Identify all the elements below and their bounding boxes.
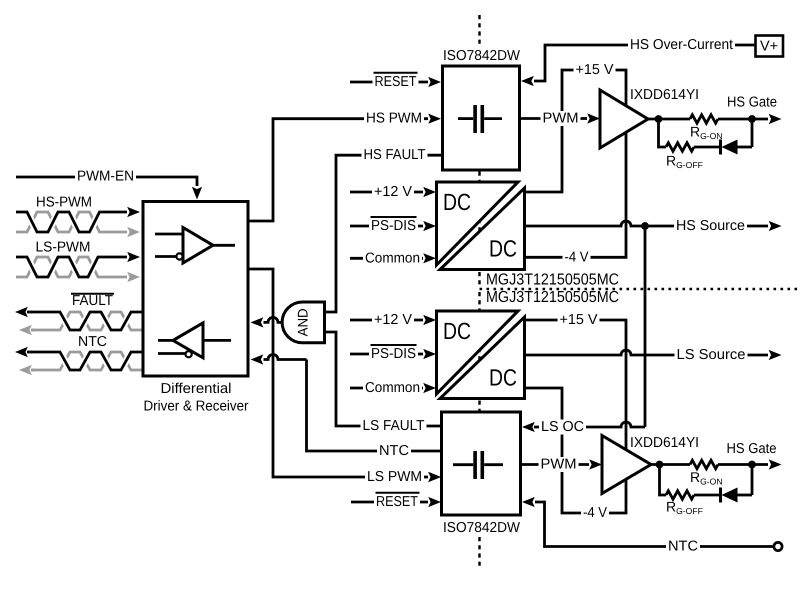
svg-text:LS PWM: LS PWM bbox=[367, 469, 422, 485]
twisted pair LS-PWM (black conductor) bbox=[16, 257, 127, 277]
svg-text:V+: V+ bbox=[760, 39, 778, 55]
open terminal (NTC) bbox=[774, 542, 782, 550]
driver buffer symbol (triangle) inside U1 bbox=[183, 228, 213, 264]
wire PS-DIS into PS2 (overline) bbox=[350, 353, 423, 356]
svg-text:IXDD614YI: IXDD614YI bbox=[630, 435, 699, 451]
svg-text:PWM: PWM bbox=[541, 457, 577, 473]
resistor R_G-OFF (top) bbox=[666, 143, 694, 151]
wire A1 output to gate resistors bbox=[648, 118, 690, 121]
svg-text:Driver & Receiver: Driver & Receiver bbox=[144, 399, 249, 415]
AND gate U2 bbox=[282, 302, 324, 343]
svg-text:+15 V: +15 V bbox=[576, 62, 614, 78]
wire HS Over-Current from V+ down into U3 bbox=[534, 45, 755, 81]
gate driver A2 IXDD614YI (bottom) bbox=[602, 436, 651, 494]
svg-text:RESET: RESET bbox=[376, 494, 418, 510]
svg-text:HS Gate: HS Gate bbox=[727, 95, 777, 111]
isolation boundary dashed vertical (below top DC/DC) bbox=[478, 272, 480, 288]
driver output wire bbox=[213, 244, 235, 247]
wire R_G-ON to HS Gate arrow bbox=[718, 118, 768, 121]
resistor R_G-ON (bottom) bbox=[690, 460, 718, 468]
twisted pair HS-PWM (gray conductor) bbox=[16, 212, 127, 232]
svg-text:HS FAULT: HS FAULT bbox=[364, 147, 426, 163]
receiver input wire (right) bbox=[203, 339, 231, 342]
wire switch-node sense: HS Source down to LS OC bbox=[644, 226, 647, 427]
label -4 V (bottom) bbox=[581, 506, 609, 521]
isolation boundary dashed vertical (above bottom DC/DC) bbox=[478, 292, 480, 310]
isolation boundary dashed vertical (between ISO and DC/DC) bbox=[478, 172, 480, 182]
svg-text:+15 V: +15 V bbox=[560, 312, 598, 328]
svg-text:HS Source: HS Source bbox=[676, 218, 745, 234]
wire -4 V bracket (bottom, drawn first so labels mask it) bbox=[525, 388, 582, 513]
DC/DC converter PS2 (bottom) upper-left triangle bbox=[437, 311, 519, 394]
diode D1 (top, cathode left) bbox=[719, 140, 722, 155]
wire LS Source output (with hop) bbox=[525, 350, 769, 355]
svg-text:DC: DC bbox=[489, 365, 517, 391]
wire Common into PS1 bbox=[350, 257, 423, 260]
wire +12 V into PS2 bbox=[350, 319, 423, 322]
wire NTC sensor input into U4 (from open terminal) bbox=[535, 502, 773, 547]
wire U1 to LS PWM (down then right into bottom ISO) bbox=[249, 269, 428, 477]
svg-text:LS Source: LS Source bbox=[677, 347, 746, 363]
capacitive isolation symbol inside U3 bbox=[458, 117, 473, 120]
wire +15 V from PS2 to driver positive rail (bottom) bbox=[525, 319, 559, 322]
DC/DC converter PS1 lower-right triangle bbox=[440, 188, 525, 270]
twisted pair NTC (gray conductor) bbox=[31, 352, 142, 370]
svg-text:NTC: NTC bbox=[379, 443, 409, 459]
wire AND output into U1 (with hop over vertical) bbox=[264, 317, 283, 322]
wire turn-off branch (bottom) bbox=[660, 465, 667, 496]
svg-text:NTC: NTC bbox=[78, 334, 107, 350]
svg-text:ISO7842DW: ISO7842DW bbox=[443, 48, 520, 64]
svg-text:DC: DC bbox=[489, 236, 517, 262]
isolation boundary dashed vertical (between bottom DC/DC and ISO) bbox=[478, 401, 480, 412]
wire PWM from U4 to gate driver A2 bbox=[521, 463, 589, 466]
svg-text:HS PWM: HS PWM bbox=[366, 111, 422, 127]
wire HS FAULT from ISO to AND input (with corner) bbox=[325, 155, 441, 312]
wire +15 V bracket (top section) bbox=[525, 70, 575, 192]
svg-text:PWM: PWM bbox=[543, 111, 579, 127]
wire LS PWM into U4 bbox=[365, 470, 424, 485]
twisted pair FAULT (gray conductor) bbox=[31, 312, 142, 330]
gate driver A1 IXDD614YI (top) bbox=[600, 90, 648, 148]
wire turn-off branch (top): down, resistor, diode, up bbox=[659, 119, 667, 147]
wire U1 to HS PWM (up then right into ISO) bbox=[249, 119, 428, 221]
svg-text:-4 V: -4 V bbox=[583, 505, 607, 521]
label MGJ3T12150505MC (top) bbox=[484, 274, 621, 286]
svg-text:ISO7842DW: ISO7842DW bbox=[443, 520, 520, 536]
label NTC (into bottom ISO) bbox=[377, 444, 411, 459]
svg-text:LS FAULT: LS FAULT bbox=[363, 418, 425, 434]
wire HS Source output (with hop, junction dot) bbox=[525, 221, 769, 226]
driver input wire (inverting, with bubble) bbox=[155, 255, 176, 258]
wire LS OC from switch-node sense into U4 (with hop) bbox=[534, 422, 645, 427]
svg-text:MGJ3T12150505MC: MGJ3T12150505MC bbox=[486, 289, 619, 306]
svg-text:LS OC: LS OC bbox=[541, 419, 584, 435]
receiver inverting wire with bubble bbox=[158, 352, 185, 355]
label HS PWM bbox=[364, 111, 424, 126]
svg-text:Common: Common bbox=[365, 250, 420, 266]
isolator U3 ISO7842DW (top) bbox=[443, 66, 520, 170]
isolation boundary dashed vertical (top, above ISO7842DW) bbox=[478, 15, 480, 46]
svg-text:PWM-EN: PWM-EN bbox=[77, 169, 134, 185]
isolation boundary dashed vertical (through top DC/DC diagonal) bbox=[478, 219, 480, 235]
isolation boundary dashed vertical (below bottom ISO7842DW) bbox=[478, 537, 480, 566]
wire PS-DIS into PS1 (overline) bbox=[350, 225, 423, 228]
label MGJ3T12150505MC (bottom) bbox=[484, 292, 621, 304]
wire -4 V from PS1 up to driver negative rail bbox=[525, 133, 627, 258]
label LS FAULT bbox=[361, 419, 427, 434]
twisted pair LS-PWM (gray conductor) bbox=[16, 257, 127, 277]
svg-text:Differential: Differential bbox=[161, 381, 232, 397]
driver input wire (non-inverting) bbox=[155, 233, 183, 236]
label ISO7842DW (top) bbox=[441, 49, 522, 64]
svg-text:HS-PWM: HS-PWM bbox=[36, 195, 92, 211]
svg-text:NTC: NTC bbox=[668, 539, 698, 555]
svg-text:HS Over-Current: HS Over-Current bbox=[630, 37, 733, 53]
isolation boundary dotted horizontal bbox=[480, 288, 800, 290]
svg-text:AND: AND bbox=[295, 308, 311, 336]
wire Common into PS2 bbox=[350, 387, 423, 390]
svg-text:+12 V: +12 V bbox=[374, 184, 412, 200]
wire HS FAULT label bbox=[362, 148, 428, 163]
DC/DC converter PS1 (top) upper-left triangle bbox=[437, 182, 519, 265]
diode D2 (bottom, cathode left) bbox=[719, 488, 722, 503]
receiver buffer symbol (left-pointing triangle) inside U1 bbox=[173, 323, 203, 358]
svg-text:DC: DC bbox=[443, 318, 471, 344]
wire +12 V into PS1 bbox=[350, 191, 423, 194]
svg-text:-4 V: -4 V bbox=[565, 249, 589, 265]
wire NTC from bottom ISO up into U1 (with hop) bbox=[264, 355, 307, 360]
wire PWM from U3 to gate driver A1 bbox=[521, 117, 587, 120]
svg-text:DC: DC bbox=[443, 189, 471, 215]
wire A2 output to gate resistors bbox=[651, 463, 690, 466]
svg-text:RESET: RESET bbox=[375, 74, 417, 90]
capacitive isolation symbol inside U4 bbox=[453, 463, 473, 466]
isolation boundary dashed vertical (through bottom DC/DC diagonal) bbox=[478, 348, 480, 364]
wire LS FAULT from bottom ISO to AND input bbox=[325, 332, 441, 426]
label ISO7842DW (bottom) bbox=[441, 521, 522, 536]
DC/DC converter PS2 lower-right triangle bbox=[440, 317, 525, 399]
wire RESET into U4 (overline) bbox=[351, 501, 428, 504]
svg-text:FAULT: FAULT bbox=[72, 293, 113, 309]
svg-text:Common: Common bbox=[365, 380, 420, 396]
svg-text:PS-DIS: PS-DIS bbox=[371, 346, 416, 362]
resistor R_G-ON (top) bbox=[690, 115, 718, 123]
svg-text:+12 V: +12 V bbox=[374, 312, 412, 328]
receiver output wire (left) bbox=[158, 339, 173, 342]
svg-text:PS-DIS: PS-DIS bbox=[371, 218, 416, 234]
twisted pair NTC (black conductor) bbox=[31, 352, 142, 370]
wire PWM-EN bbox=[16, 177, 197, 186]
twisted pair FAULT (black conductor) bbox=[31, 312, 142, 330]
twisted pair HS-PWM (black conductor) bbox=[16, 212, 127, 232]
isolator U4 ISO7842DW (bottom) bbox=[442, 412, 521, 515]
svg-text:IXDD614YI: IXDD614YI bbox=[630, 87, 699, 103]
svg-text:MGJ3T12150505MC: MGJ3T12150505MC bbox=[486, 272, 619, 289]
wire RESET into U3 (with overline) bbox=[350, 81, 428, 84]
resistor R_G-OFF (bottom) bbox=[666, 491, 694, 499]
svg-text:HS Gate: HS Gate bbox=[727, 441, 777, 457]
svg-text:LS-PWM: LS-PWM bbox=[36, 240, 91, 256]
terminal box V+ bbox=[756, 36, 784, 57]
block U1 Differential Driver & Receiver bbox=[143, 202, 248, 377]
